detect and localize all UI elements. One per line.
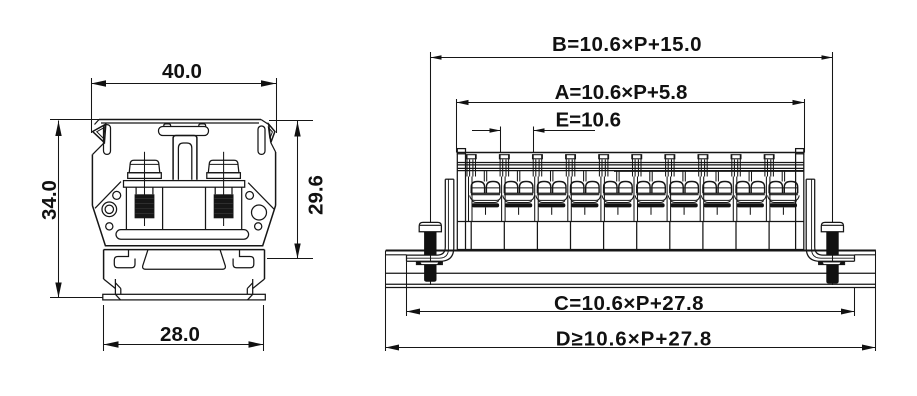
dimension E [472,109,621,153]
left end bracket [407,179,454,261]
clamp screws front row [470,171,800,215]
hole large right [252,205,267,220]
right bracket screw [819,52,845,285]
dimension 34.0 left height [38,120,103,298]
clamp screw right [206,152,242,230]
body slot [116,230,249,240]
foot right lower step [247,279,264,294]
svg-text:E=10.6: E=10.6 [556,109,622,132]
right end bracket [806,179,854,261]
hole ring left [102,202,117,217]
strip right end cap [796,149,804,250]
cap right wall [275,152,277,206]
hole top-right [246,192,254,200]
svg-text:29.6: 29.6 [305,175,328,215]
foot rail channel [143,250,226,270]
svg-text:B=10.6×P+15.0: B=10.6×P+15.0 [552,33,702,56]
cap right latch bar [258,126,265,154]
dimension 28.0 bottom width [104,305,264,351]
center mounting tab [159,124,209,180]
foot upper box [104,250,265,279]
current bar plate [124,181,245,188]
foot right hook [233,250,254,268]
dimension D [386,251,876,352]
svg-text:28.0: 28.0 [160,323,200,346]
svg-text:34.0: 34.0 [38,180,61,220]
cap left latch bar [104,125,111,155]
strip bottom line [457,249,804,251]
mounting rail [386,251,876,288]
hole top-left [113,191,121,199]
foot left lower step [104,279,121,294]
left bracket screw [416,52,442,285]
dimension C [407,261,855,316]
dimension B [431,33,833,60]
cap right wedge clip [268,124,275,152]
hole bottom-right [255,223,262,230]
cap left wall [91,154,93,205]
foot left hook [114,250,135,268]
dimension A [457,81,805,153]
strip top edge [457,152,804,154]
terminal body outline [92,182,275,246]
svg-text:A=10.6×P+5.8: A=10.6×P+5.8 [555,81,688,104]
svg-text:40.0: 40.0 [162,60,202,83]
cap left wedge clip [93,124,106,154]
strip mid line [457,221,804,223]
dimension 29.6 right height [267,121,328,259]
strip left end cap [457,149,465,250]
foot base strip [103,294,265,300]
cell walls [469,177,770,250]
hole bottom-left [106,223,113,230]
dimension 40.0 top width [91,60,277,133]
partition posts [466,154,774,176]
cap top plate [95,120,270,126]
clamp screw left [126,152,162,230]
tie bars [457,163,804,172]
